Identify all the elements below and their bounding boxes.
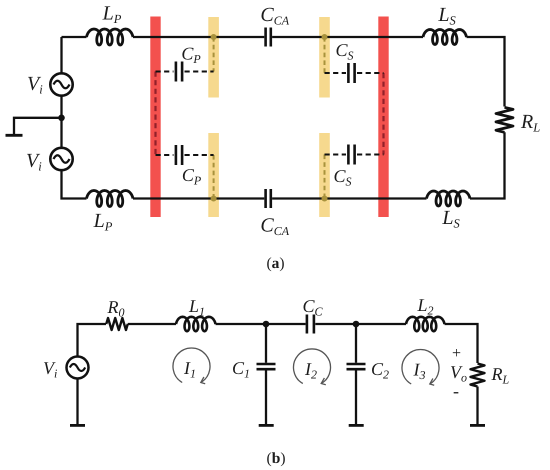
wire top-right segment [272, 36, 423, 38]
ground under RL [470, 424, 485, 427]
svg-text:LS: LS [437, 4, 456, 28]
svg-text:L1: L1 [188, 296, 205, 319]
svg-text:CP: CP [182, 165, 202, 188]
svg-text:CCA: CCA [260, 4, 289, 28]
svg-text:LP: LP [102, 3, 122, 27]
node olive dot bottom-right [322, 196, 328, 202]
dashed wire red-bar left [154, 72, 156, 156]
svg-text:I2: I2 [304, 359, 317, 382]
transmitter plate P1 (red bar left) [150, 17, 160, 218]
wire top-middle segment [133, 36, 264, 38]
svg-text:L2: L2 [416, 295, 433, 318]
dashed wire to CS bottom [325, 154, 384, 156]
dashed wire yellow top-right [324, 37, 326, 73]
inductor LS top coil [423, 30, 467, 45]
svg-text:R0: R0 [107, 297, 125, 320]
svg-text:+: + [452, 345, 461, 362]
capacitor C2 [347, 364, 366, 369]
loop current I1 arrow [173, 348, 210, 384]
svg-text:CC: CC [302, 296, 323, 319]
coupler plate top-right (yellow bar) [319, 17, 330, 98]
wire node2 to L2 [356, 323, 406, 325]
svg-text:Vi: Vi [26, 150, 42, 174]
loop current I2 arrow [294, 349, 331, 385]
wire Vi to ground (b) [76, 379, 78, 425]
svg-text:I1: I1 [183, 358, 196, 381]
wire bottom-middle segment [133, 197, 264, 199]
node olive dot bottom-left [211, 196, 217, 202]
wire top-right corner [467, 37, 505, 107]
capacitor CC [307, 315, 314, 334]
wire node1 to CC [266, 323, 306, 325]
inductor LP bottom coil [87, 191, 134, 207]
node 2 [353, 321, 360, 328]
wire junction to ground [14, 118, 62, 134]
svg-text:(b): (b) [267, 450, 286, 467]
wire R0 to L1 [128, 323, 176, 325]
dashed wire to CP top [156, 71, 214, 73]
wire bottom-left corner [62, 170, 87, 198]
dashed wire yellow top-left [213, 37, 215, 72]
dashed wire red-bar right [382, 73, 384, 155]
resistor R0 [106, 318, 128, 330]
loop current I3 arrow [402, 350, 439, 386]
wire C1 to ground [265, 370, 267, 424]
svg-text:CS: CS [333, 166, 351, 189]
svg-text:CS: CS [335, 40, 353, 63]
capacitor CCA top [266, 28, 271, 47]
wire Vi-top to junction [60, 96, 62, 118]
node junction (sources midpoint) [58, 115, 65, 122]
wire right-bottom segment [470, 132, 505, 198]
capacitor CS top [348, 63, 354, 83]
dashed wire yellow bottom-right [324, 155, 326, 199]
wire top-left segment [62, 36, 87, 38]
ground (a) [6, 134, 23, 137]
wire bottom-right segment [272, 197, 426, 199]
ground under C1 [259, 424, 274, 427]
wire C2 to ground [355, 370, 357, 424]
resistor RL (b) [471, 364, 485, 387]
svg-text:C2: C2 [371, 359, 389, 382]
inductor L1 [176, 317, 216, 331]
svg-text:-: - [453, 381, 459, 401]
wire b left corner [78, 324, 107, 356]
node olive dot top-left [211, 34, 217, 40]
dashed wire to CS top [325, 72, 384, 74]
capacitor CP top [176, 62, 182, 82]
svg-text:C1: C1 [232, 358, 250, 381]
wire junction to Vi bottom [60, 118, 62, 148]
wire node1 to C1 [265, 324, 267, 363]
wire node2 to C2 [355, 324, 357, 363]
wire L1 to node1 [216, 323, 267, 325]
wire RL to ground [476, 387, 478, 425]
coupler plate bottom-right (yellow bar) [319, 133, 330, 217]
svg-text:RL: RL [491, 364, 510, 387]
wire L2 to RL corner [445, 324, 478, 363]
svg-text:CCA: CCA [260, 215, 289, 239]
wire top corner above Vi [60, 37, 62, 73]
svg-text:CP: CP [181, 44, 201, 67]
wire CC to node2 [315, 323, 356, 325]
capacitor CCA bottom [266, 189, 271, 208]
svg-text:I3: I3 [413, 360, 426, 383]
ground under Vi (b) [70, 424, 85, 427]
svg-text:RL: RL [520, 111, 540, 135]
svg-text:Vi: Vi [43, 358, 57, 381]
svg-text:LS: LS [441, 207, 460, 231]
coupler plate bottom-left (yellow bar) [208, 133, 219, 217]
source Vi bottom [50, 148, 72, 170]
inductor LS bottom coil [427, 191, 471, 206]
svg-text:(a): (a) [266, 255, 284, 272]
coupler plate top-left (yellow bar) [208, 17, 219, 98]
source Vi top [50, 73, 72, 95]
dashed wire to CP bottom [156, 154, 214, 156]
node olive dot top-right [322, 34, 328, 40]
capacitor C1 [257, 364, 276, 369]
receiver plate P2 (red bar right) [378, 17, 388, 218]
capacitor CS bottom [348, 145, 354, 165]
node 1 [263, 321, 270, 328]
inductor LP top coil [87, 29, 134, 45]
ground under C2 [349, 424, 364, 427]
inductor L2 [406, 317, 445, 331]
dashed wire yellow bottom-left [213, 155, 215, 199]
resistor RL (a) [496, 107, 513, 132]
svg-text:Vi: Vi [27, 73, 43, 97]
svg-text:LP: LP [93, 210, 113, 234]
capacitor CP bottom [176, 145, 182, 165]
source Vi (b) [67, 357, 89, 379]
